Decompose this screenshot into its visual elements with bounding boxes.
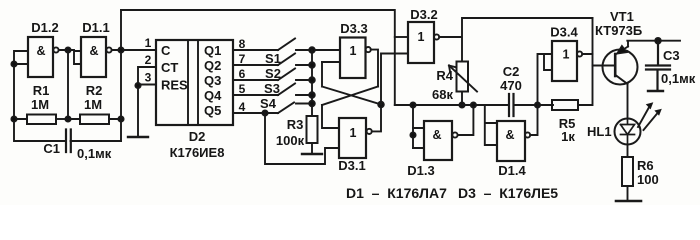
ground below C3 [648,90,663,92]
wire node riser to D3.4 [538,54,553,105]
wire S3 row [233,94,312,96]
svg-text:S1: S1 [265,51,281,66]
gate D3.4 [552,41,582,81]
wire D3.2 output to R4 [439,18,592,62]
svg-text:&: & [36,44,45,58]
svg-text:CT: CT [161,60,178,75]
gate D1.3 [424,121,458,160]
node R1/R2 junction [65,116,70,121]
wire C1 right to right column [71,140,122,142]
capacitor C3 [646,41,670,90]
svg-text:C2: C2 [503,64,520,79]
svg-text:D3.3: D3.3 [340,21,367,36]
svg-text:RES: RES [161,78,188,93]
wire D3.1 output up [372,105,381,132]
svg-text:HL1: HL1 [587,124,612,139]
svg-text:5: 5 [239,82,246,96]
node D1.1 output junction [118,47,123,52]
svg-text:Q2: Q2 [204,58,221,73]
switch blade S2 [278,69,295,81]
resistor R6 [622,157,633,186]
node D1.3 out rail [471,102,476,107]
svg-text:3: 3 [145,71,152,85]
wire R6 to ground [627,186,629,200]
wire D3.3 lower input [322,61,340,63]
svg-text:D1.3: D1.3 [407,163,434,178]
wire cross diagonal A [322,62,381,105]
wire cross diagonal B [322,87,378,106]
svg-text:С3: С3 [663,48,680,63]
gate D3.3 [340,38,371,79]
svg-text:R4: R4 [436,68,453,83]
svg-text:1: 1 [145,36,152,50]
svg-text:D1.4: D1.4 [498,163,526,178]
svg-text:D2: D2 [189,129,206,144]
gate D3.1 [339,118,372,158]
capacitor C2 [509,94,514,116]
svg-text:D1.2: D1.2 [31,20,58,35]
resistor R5 [552,100,578,110]
svg-text:R6: R6 [637,158,654,173]
svg-text:0,1мк: 0,1мк [77,146,112,161]
svg-text:8: 8 [239,37,246,51]
node pin3 junction [135,83,140,88]
resistor R2 [80,115,109,125]
svg-text:КТ973Б: КТ973Б [595,23,642,38]
resistor R4 variable [449,62,477,92]
svg-text:100к: 100к [276,133,305,148]
wire to D3.1 upper input [322,105,339,128]
node R1 left junction [11,116,16,121]
ground below R6 [616,200,641,203]
svg-text:S3: S3 [264,81,280,96]
svg-text:1: 1 [350,126,357,140]
node bus S2 [309,77,315,83]
wire top rail [121,10,395,105]
wire right column D1.1 out / C input [112,10,156,141]
wire top rail into D3.2 upper input [395,36,408,38]
IC D2 box [156,40,233,125]
svg-text:S4: S4 [260,96,277,111]
wire R4 bottom to rail [461,92,463,106]
gate D1.4 [497,121,530,161]
svg-text:Q5: Q5 [204,103,221,118]
resistor R3 [307,116,318,143]
switch blade S4 [278,103,294,114]
wire S4 drop to lower rail to D3.1 [265,113,339,164]
wire mid column to R1/R2 junction [67,50,69,119]
svg-text:R3: R3 [287,117,304,132]
node bus S4 [309,101,315,107]
node bus S1 [309,62,315,68]
svg-text:D3.2: D3.2 [410,7,437,22]
svg-text:&: & [505,128,514,142]
ground below R3 [302,153,322,155]
node C3 tap [655,38,661,44]
wire D2 pin2 pin3 tie to ground [138,67,156,136]
svg-text:1к: 1к [561,129,575,144]
capacitor C1 [66,130,71,153]
svg-text:VT1: VT1 [610,9,634,24]
svg-text:1М: 1М [84,97,102,112]
svg-text:D3.4: D3.4 [550,25,578,40]
node rail at D1.3 column [410,102,415,107]
node S4 drop [262,110,267,115]
svg-text:D1 – К176ЛА7: D1 – К176ЛА7 [346,185,447,201]
wire latch to D3.2 lower input [381,54,408,105]
svg-text:0,1мк: 0,1мк [661,71,696,86]
wire emitter riser and top rail [627,41,680,47]
switch blade S1 [278,54,295,66]
wire D1.3 output riser [458,105,474,135]
svg-text:D1.1: D1.1 [82,20,109,35]
svg-text:470: 470 [500,78,522,93]
wire middle rail [413,104,509,106]
node latch junction [378,102,384,108]
wire Q1 row with switch to D3.3 [233,49,340,51]
wire rail bend to D1.3 inputs [395,105,413,148]
wire D1.2 output to D1.1 inputs [59,50,81,64]
wire R5 left lead [538,104,553,106]
gate D1.1 [81,37,112,77]
node R4 rail [459,102,464,107]
svg-text:R1: R1 [33,83,50,98]
svg-text:Q1: Q1 [204,43,221,58]
svg-text:Q4: Q4 [204,88,222,103]
node D1.3 input [410,132,415,137]
svg-text:68к: 68к [432,87,453,102]
svg-text:1: 1 [350,44,357,58]
wire D1.3 input stubs [413,128,424,148]
svg-text:С1: С1 [43,141,60,156]
wire D3.4 output to base [582,54,615,66]
svg-text:1: 1 [418,30,425,44]
LED HL1 [615,103,662,145]
wire LED to R6 [627,145,629,158]
svg-text:6: 6 [239,67,246,81]
wire D3.3 output down to cross [371,50,378,87]
wire S4 row [233,112,278,114]
svg-text:C: C [161,43,171,58]
svg-text:К176ИЕ8: К176ИЕ8 [170,145,225,160]
ground below D2 [128,136,148,138]
node C2 right [535,102,540,107]
wire D1.4 bracket feed [485,105,497,145]
svg-text:2: 2 [145,53,152,67]
svg-text:4: 4 [239,100,246,114]
wire D1.2 input stubs and tie [14,51,28,64]
svg-text:R2: R2 [86,83,103,98]
wire S2 row [233,79,312,81]
wire S1 row [233,64,312,66]
switch blade S3 [278,84,295,96]
node R2 right junction [118,116,123,121]
wire R2 leads [68,118,121,120]
wire R5 right riser to base node [578,18,593,105]
svg-text:S2: S2 [265,66,281,81]
wire D1.4 output riser to node [530,105,537,135]
svg-text:100: 100 [637,172,659,187]
gate D1.2 [28,37,59,77]
svg-text:1: 1 [563,48,570,62]
node A mid junction [65,47,70,52]
svg-text:D3.1: D3.1 [338,158,365,173]
wire R1 to mid [56,118,68,120]
svg-text:&: & [432,128,441,142]
node bus S3 [309,92,315,98]
wire C2 right to node [514,104,553,106]
svg-text:D3 – К176ЛЕ5: D3 – К176ЛЕ5 [458,185,558,201]
gate D3.2 [408,22,439,63]
wire bus vertical [311,50,313,116]
node bus top [309,47,315,53]
wire left column to R1 and C1 [14,64,66,141]
svg-text:7: 7 [239,52,246,66]
switch blade row 8 [278,39,295,51]
wire collector down to LED [627,84,629,119]
transistor VT1 [603,46,638,85]
svg-text:&: & [89,44,98,58]
wire S4 fixed contact to bus [296,103,312,105]
node D1.2 input junction [11,61,16,66]
wire R3 to ground [311,143,313,153]
svg-text:1М: 1М [31,97,49,112]
resistor R1 [27,115,56,125]
svg-text:Q3: Q3 [204,73,221,88]
